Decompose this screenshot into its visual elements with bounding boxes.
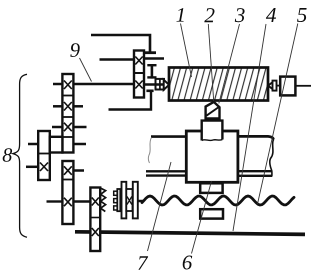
workpiece cylinder 1 hatched: [169, 68, 268, 101]
wire clutch to screw: [138, 200, 143, 203]
rail upper right: [238, 136, 274, 139]
label 1: [176, 8, 183, 22]
leader line 1: [181, 24, 192, 78]
leader line 4: [233, 24, 266, 231]
wire stub B4 right: [73, 143, 86, 146]
gear X B2: [64, 102, 72, 111]
gear X upper bevel: [135, 57, 142, 65]
wire shaft stub left upper: [100, 58, 135, 60]
gear X lower bevel: [135, 81, 142, 89]
gear pair bevel column housing: [134, 51, 144, 98]
clutch disc right: [133, 182, 138, 219]
wire feed shaft mid: [73, 200, 90, 202]
bearing under coupling: [146, 90, 153, 93]
leader line 9: [80, 58, 92, 82]
coupling box drive: [156, 79, 165, 90]
leader line 7: [148, 162, 172, 251]
break squiggle left: [148, 138, 151, 164]
wire top input shaft horizontal: [91, 35, 150, 52]
dresser pedestal post: [202, 121, 223, 141]
gearbox 8 column A stack: [38, 131, 50, 180]
gearbox 8 column B lower stack: [62, 161, 73, 224]
gear X C2: [92, 228, 99, 236]
nut upper half: [200, 183, 222, 193]
brace 8: [13, 74, 27, 237]
gear X B1: [64, 81, 72, 90]
leader line 6: [192, 181, 212, 254]
rail lower right pair: [238, 171, 272, 176]
gear X B3: [64, 123, 72, 132]
label 3: [235, 8, 245, 22]
rail upper left: [151, 135, 186, 138]
ratchet teeth: [100, 188, 105, 212]
center cone left: [164, 80, 169, 90]
bearing flange top: [141, 51, 156, 54]
tailstock box 5: [280, 77, 295, 96]
wire stub B2 left: [53, 105, 62, 108]
machine bed line: [75, 232, 305, 235]
label 7: [138, 256, 148, 269]
wire main shaft 9: [74, 83, 134, 86]
label 9: [70, 43, 79, 57]
bridge sliding block: [50, 137, 63, 153]
wire shaft to coupling: [144, 83, 164, 85]
wire bracket support: [109, 92, 152, 110]
nut lower half: [200, 209, 223, 219]
wire stub B3 left: [52, 126, 62, 129]
label 5: [297, 8, 307, 22]
dresser tool diamond 2 3: [206, 102, 220, 119]
wire shaft stub right upper: [144, 57, 164, 59]
coupling I symbol: [147, 64, 156, 79]
clutch disc left: [122, 182, 127, 219]
leader line 3: [219, 24, 240, 104]
label 4: [266, 8, 276, 22]
wire stub B3 right: [73, 126, 86, 129]
wire tailstock stub: [296, 85, 312, 87]
wire stub B5 right: [73, 169, 84, 172]
leader line 2: [208, 24, 213, 101]
label 2: [204, 8, 214, 22]
gear X B5: [64, 166, 72, 175]
table slide block 6: [186, 131, 238, 182]
clutch hub bar: [117, 189, 120, 211]
feed column C stack: [90, 188, 100, 252]
gearbox 8 column B stack: [62, 74, 73, 153]
wire stub B2 right: [73, 105, 83, 108]
break edge right: [270, 139, 274, 177]
center holder small box: [273, 81, 277, 91]
label 8: [3, 148, 12, 162]
wire stub A left upper: [28, 143, 38, 146]
label 6: [183, 256, 193, 270]
center cone right: [268, 82, 273, 90]
rail lower left pair: [146, 171, 186, 175]
wire feed shaft left: [47, 200, 63, 202]
leadscrew wave 7: [142, 196, 294, 205]
gear X C1: [92, 198, 99, 206]
clutch teeth small squares: [114, 191, 118, 210]
clutch X box: [126, 189, 132, 211]
wire stub B1 left: [53, 83, 62, 86]
wire center link: [277, 85, 281, 87]
gear X A2: [40, 163, 48, 172]
leader line 5: [258, 24, 298, 205]
gear X B6: [64, 198, 72, 207]
wire stub A left lower: [26, 166, 38, 169]
